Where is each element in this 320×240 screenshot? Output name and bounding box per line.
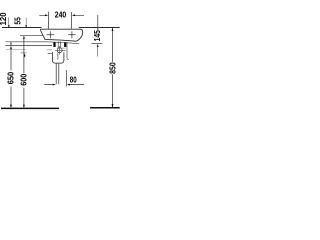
svg-text:120: 120 (0, 12, 8, 25)
fixing bolt left (53, 42, 55, 47)
small arrow under y52.9 line (24, 53, 26, 56)
svg-text:240: 240 (55, 10, 67, 20)
fixing bolt right (64, 42, 66, 47)
svg-text:55: 55 (14, 17, 23, 25)
svg-text:600: 600 (19, 74, 29, 86)
dimension 600 (23, 36, 25, 39)
leader arrow of 120 (7, 18, 9, 26)
floor line right (90, 107, 120, 109)
wall line (2, 27, 120, 29)
tap hole cross left (47, 31, 55, 38)
leader arrow of 55 (25, 18, 27, 26)
tap hole cross right (68, 31, 76, 38)
extension line y35.3 (20, 34, 43, 36)
down pipe (56, 63, 59, 84)
svg-text:80: 80 (70, 74, 77, 84)
trap top flange (48, 52, 53, 54)
dimension 850 (112, 28, 114, 107)
trap inner pipe (57, 52, 59, 59)
dimension 80 (44, 84, 84, 86)
extension line y45.5 (5, 45, 52, 47)
svg-text:850: 850 (108, 62, 118, 74)
bottle trap (52, 52, 64, 63)
floor line left (1, 107, 59, 109)
dimension 650 (10, 42, 12, 45)
svg-text:145: 145 (92, 30, 102, 41)
right extension line of 80 (66, 70, 68, 87)
drain tailpipe (58, 42, 61, 49)
basin outline (40, 29, 82, 41)
short line y52.9 (21, 52, 27, 54)
extension line x97.8 (97, 15, 99, 30)
faint line y49.5 (6, 48, 53, 50)
svg-text:650: 650 (6, 72, 16, 85)
outlet cross circle (57, 48, 62, 53)
flange line (57, 47, 66, 49)
dimension 240 (39, 12, 84, 29)
basin lower edge line (6, 42, 80, 44)
wall hook line (67, 42, 69, 60)
